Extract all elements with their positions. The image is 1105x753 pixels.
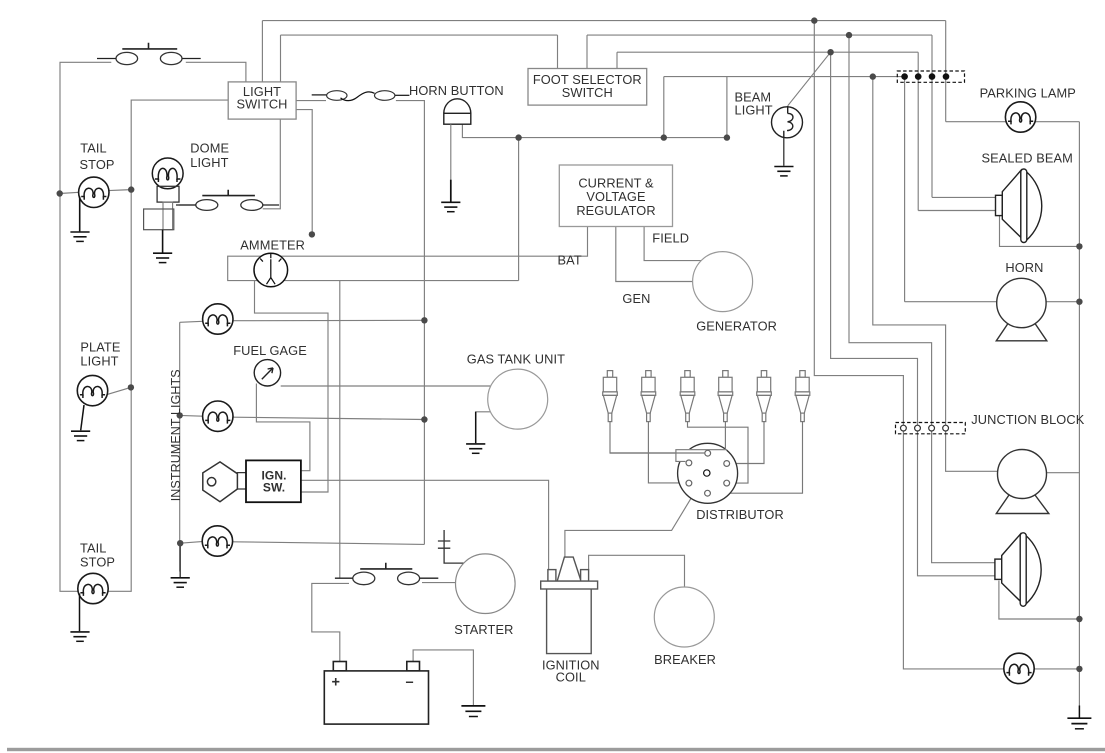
starter cable stub with hash marks (438, 530, 464, 563)
svg-text:BAT: BAT (558, 253, 582, 268)
horn 2 (996, 450, 1049, 514)
wire: gas tank ground branch (476, 412, 491, 443)
wire: sealed beam 1 lower feed (918, 210, 995, 212)
svg-text:HORN BUTTON: HORN BUTTON (409, 83, 504, 98)
wire: ammeter bus drop to starter switch (339, 281, 341, 578)
wire: ignition switch to ignition coil (301, 480, 549, 571)
svg-text:PLATE: PLATE (80, 340, 120, 355)
wire: fuel gauge to ignition switch (256, 384, 310, 471)
node: tail stop left (57, 190, 63, 196)
node: right bus bottom lamp (1076, 666, 1082, 672)
ground (beam light) (774, 167, 793, 176)
wire: bulb2 links (180, 415, 425, 419)
wire: dome socket to switch left (179, 204, 196, 206)
spark plug 3 (680, 371, 695, 422)
wire: y=52.2 bus to x=918.2 (617, 51, 918, 53)
ground (battery negative) (461, 706, 485, 717)
spark plug 2 (641, 371, 656, 422)
junction block 2 (dashed) (896, 423, 966, 434)
wire: squiggle right to instrument feed pillar (396, 101, 425, 545)
node: horn bus x=518.6 (515, 134, 521, 140)
wire: bulb1 links (180, 320, 425, 322)
node: horn bus x=663.8 (661, 134, 667, 140)
wire: ammeter top bus / BAT (228, 227, 588, 281)
wire: horn button bus y=137.6 (462, 124, 727, 137)
svg-text:JUNCTION BLOCK: JUNCTION BLOCK (971, 412, 1084, 427)
svg-text:STARTER: STARTER (454, 622, 513, 637)
wire: junction block1 dot1 down to horn 1 (904, 77, 906, 302)
wire: feed to parking lamp left (946, 121, 1007, 123)
wire: tail stop top lamp right link (109, 190, 132, 191)
instrument light bulb 2 (203, 401, 233, 431)
junction block 1 (dashed) (897, 71, 964, 82)
wire: tail stop top lamp left link (60, 192, 79, 193)
dome light switch (176, 190, 279, 211)
ground (gas tank) (475, 412, 477, 443)
svg-text:LIGHT: LIGHT (735, 103, 773, 118)
wire: y=76.6 run from n-loop to junction block 1 (664, 76, 905, 78)
svg-text:DISTRIBUTOR: DISTRIBUTOR (696, 507, 784, 522)
node: top bus x=814.3 (811, 17, 817, 23)
ground (dome light) (162, 230, 164, 253)
svg-text:STOP: STOP (80, 555, 115, 570)
svg-text:BREAKER: BREAKER (654, 652, 716, 667)
plate light lamp (77, 375, 107, 405)
node: right bus sealed beam 1 (1076, 243, 1082, 249)
svg-text:DOME: DOME (190, 140, 229, 155)
node: horn bus x=726.9 (724, 134, 730, 140)
wire: GEN lead (616, 227, 693, 282)
node: instrument pillar bulb3 (177, 540, 183, 546)
wire: plug3 loop to lower-right terminal (688, 422, 749, 484)
wire: FIELD lead (644, 227, 701, 261)
wire: plug1 to distributor top terminal (610, 422, 704, 453)
wire: top feed bus (y=20.6) light switch to far right (262, 20, 945, 22)
wire: vertical x=726.9 horn bus riser (726, 77, 728, 138)
node: y=76.6 bus x=872.8 (870, 73, 876, 79)
wire: light switch top terminal 1 up to top feed bus (261, 21, 263, 82)
wire: top-left switch left lead wire to far-left pillar (60, 62, 111, 591)
fuel gauge (254, 360, 280, 386)
wire: coil primary to breaker (589, 555, 685, 587)
wire: foot selector left-top terminal drop (557, 35, 559, 68)
horn button (444, 99, 471, 124)
wire: drop at x=918.2 through junction block 1 to sealed beam lower (917, 52, 919, 210)
wire: drop at x=945.7 through junction block to parking lamp level (945, 21, 947, 122)
wire: vertical x=518.6 from horn bus to ammeter bottom bus (518, 138, 520, 281)
sealed beam 1 (996, 169, 1042, 243)
wire: dome switch right contact to light switch bottom (263, 119, 281, 209)
wire: branch at x=849 down, staircase to junction block 2 circle 3 (849, 35, 932, 425)
wire: top-left switch right wire into light switch top (186, 62, 246, 82)
wire: branch at x=830.6 down, staircase to junction block 2 circle 2 (831, 52, 918, 425)
ground (tail stop top) (79, 197, 81, 232)
beam light (772, 106, 803, 138)
wire: horn 1 left feed (905, 301, 997, 303)
wire: foot selector terminal 3 riser to y=52.2 (616, 52, 618, 68)
node: feed pillar bulb2 (421, 416, 427, 422)
svg-text:FUEL GAGE: FUEL GAGE (233, 343, 307, 358)
svg-text:AMMETER: AMMETER (240, 238, 305, 253)
node: y=52.2 bus x=830.6 (827, 49, 833, 55)
svg-text:LIGHT: LIGHT (190, 155, 228, 170)
wire: battery positive feed from starter switch (312, 583, 349, 661)
svg-text:REGULATOR: REGULATOR (576, 203, 655, 218)
horn 1 (996, 278, 1047, 341)
wire: drop at x=932 through junction block 1 to sealed beam upper (931, 35, 933, 197)
wire: branch at x=872.8 down, staircase to junction block 2 circle 4 (873, 77, 946, 426)
wire: vertical x=663.8 down to horn bus (663, 77, 665, 138)
spark plug 6 (795, 371, 810, 422)
wire: slant from y=51.8 junction to beam light (788, 52, 831, 106)
svg-text:HORN: HORN (1005, 260, 1043, 275)
wire: starter switch to starter motor (422, 582, 456, 584)
wire: right-hand ground bus (1078, 122, 1080, 706)
wire: light switch drop wire to floating dot (296, 110, 312, 232)
svg-text:GEN: GEN (622, 291, 650, 306)
node: tail stop right (128, 186, 134, 192)
wire: plate light right link (107, 387, 131, 394)
ground (horn button) (441, 202, 460, 211)
svg-text:VOLTAGE: VOLTAGE (586, 189, 645, 204)
battery (324, 662, 428, 725)
wire: light switch squiggle left lead (296, 100, 326, 102)
distributor terminals (686, 450, 730, 496)
svg-text:TAIL: TAIL (80, 141, 106, 156)
wire: y=35.1 bus right segment to x=932 (587, 34, 932, 36)
wire: junction block 2 circle1 down to bottom lamp (903, 431, 1004, 669)
ground (instrument lights) (179, 543, 181, 577)
svg-text:PARKING LAMP: PARKING LAMP (980, 86, 1076, 101)
dome light stem rect (163, 202, 173, 230)
node: plate light (128, 384, 134, 390)
gas tank unit circle (488, 369, 548, 429)
light switch squiggle coil (312, 91, 410, 101)
current &amp; voltage regulator box (559, 165, 672, 227)
wire: bottom lamp right to bus (1034, 668, 1080, 670)
svg-text:INSTRUMENT LIGHTS: INSTRUMENT LIGHTS (169, 369, 183, 501)
dome light bulb (152, 158, 183, 189)
wire: coil secondary tower from distributor center (565, 476, 705, 558)
node: y=35.1 bus x=849 (846, 32, 852, 38)
svg-text:SW.: SW. (263, 481, 285, 495)
bottom grey bar (7, 748, 1105, 751)
svg-text:GENERATOR: GENERATOR (696, 319, 777, 334)
svg-text:TAIL: TAIL (80, 540, 106, 555)
spark plug + distributor wires (610, 422, 803, 494)
svg-text:+: + (332, 675, 341, 691)
node: right bus sealed beam 2 (1076, 616, 1082, 622)
foot selector switch box (528, 69, 647, 106)
wire: junction block 2 circle2 down to sealed beam 2 lower (918, 431, 995, 576)
wire: sealed beam 1 tail down and right to bus (1000, 215, 1080, 246)
wire: horn 2 right to bus (1046, 472, 1079, 474)
instrument light bulb 1 (203, 304, 233, 334)
top-left courtesy switch (97, 43, 201, 65)
generator circle (693, 252, 753, 312)
ground (right bus) (1067, 718, 1091, 729)
bottom right lamp (1004, 653, 1034, 683)
node: right bus horn 1 (1076, 299, 1082, 305)
svg-text:LIGHT: LIGHT (80, 354, 118, 369)
svg-text:GAS TANK UNIT: GAS TANK UNIT (467, 352, 565, 367)
spark plug 4 (718, 371, 733, 422)
svg-text:STOP: STOP (80, 157, 115, 172)
distributor hook wire from plug 4 (white halo) (610, 422, 726, 462)
wire: branch at x=814.3 down, staircase to junction block 2 circle 1 (814, 21, 903, 426)
node: feed pillar bulb1 (421, 317, 427, 323)
svg-text:SWITCH: SWITCH (562, 85, 613, 100)
node: light switch drop end (309, 231, 315, 237)
breaker circle (654, 587, 714, 647)
starter switch (335, 563, 438, 585)
wire: parking lamp right to right bus (1035, 121, 1080, 123)
wire: light switch left terminal run (108, 100, 228, 591)
spark plug 5 (757, 371, 772, 422)
tail stop lamp (bottom) (78, 573, 108, 603)
wire: bulb3 links (180, 542, 424, 545)
wire: fuel gauge to gas tank unit (281, 385, 491, 387)
wire: light switch top terminal 2 up to y=35.1 bus (280, 35, 282, 82)
ignition switch box (246, 460, 301, 502)
parking lamp (1005, 102, 1035, 132)
distributor body (678, 443, 738, 503)
svg-text:SWITCH: SWITCH (236, 97, 287, 112)
instrument light bulb 3 (202, 526, 232, 556)
starter motor circle (456, 554, 516, 614)
svg-text:FIELD: FIELD (652, 231, 689, 246)
ignition switch key (203, 462, 246, 502)
wire: horn 1 right to right bus (1046, 301, 1079, 303)
wire: plug2 to distributor lower-left terminal (648, 422, 685, 483)
wire: junction block 2 circle3 down to sealed beam 2 upper (932, 431, 995, 563)
svg-text:COIL: COIL (556, 670, 586, 685)
dome light socket (157, 186, 179, 202)
ground (tail stop bottom) (79, 594, 81, 632)
wire: foot selector terminal 2 riser (586, 35, 588, 68)
tail stop lamp (top) (79, 177, 109, 207)
wire: plug6 to bottom terminal (711, 422, 802, 494)
ammeter (254, 253, 288, 287)
wire: instrument pillar left (179, 322, 181, 571)
wire: beam light ground stem (783, 138, 785, 166)
wire: sealed beam 1 upper feed (932, 196, 996, 198)
wire: sealed beam 2 tail down right to bus (999, 581, 1080, 620)
spark plug 1 (603, 371, 618, 422)
wire: y=35.1 bus left segment to foot selector switch (281, 34, 558, 36)
svg-text:–: – (406, 675, 414, 691)
light switch box (228, 82, 296, 119)
dome light bracket rect (144, 209, 174, 230)
svg-text:SEALED BEAM: SEALED BEAM (982, 151, 1073, 166)
ground (plate light) (81, 405, 84, 430)
wire: battery negative to ground (413, 650, 473, 705)
ignition coil (541, 557, 598, 654)
sealed beam 2 (995, 533, 1041, 607)
node: instrument pillar bulb2 (177, 412, 183, 418)
wire: horn button to ground (450, 124, 452, 180)
wire: ammeter jog down to ignition switch (255, 281, 329, 492)
wire: junction block 2 circle4 down to horn 2 (946, 431, 998, 471)
wire: plug5 to upper-right terminal (730, 422, 764, 464)
